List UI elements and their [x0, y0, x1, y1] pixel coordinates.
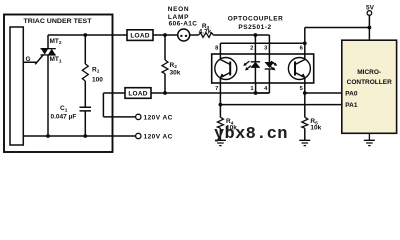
svg-text:100: 100	[92, 76, 103, 83]
svg-text:10k: 10k	[310, 125, 321, 132]
svg-text:4.7k: 4.7k	[199, 29, 212, 36]
svg-text:7: 7	[215, 86, 218, 92]
svg-text:120V AC: 120V AC	[144, 115, 173, 122]
svg-text:606-A1C: 606-A1C	[169, 21, 198, 28]
svg-text:2: 2	[250, 45, 253, 51]
svg-text:5V: 5V	[366, 5, 375, 12]
svg-text:30k: 30k	[170, 69, 181, 76]
svg-text:NEON: NEON	[168, 6, 190, 13]
svg-text:CONTROLLER: CONTROLLER	[347, 79, 392, 86]
svg-text:LOAD: LOAD	[128, 91, 147, 98]
svg-text:OPTOCOUPLER: OPTOCOUPLER	[228, 16, 284, 23]
svg-text:PS2501-2: PS2501-2	[238, 24, 271, 31]
svg-text:MICRO-: MICRO-	[357, 69, 381, 76]
svg-text:120V AC: 120V AC	[144, 134, 173, 141]
svg-text:0.047 µF: 0.047 µF	[51, 113, 77, 120]
svg-text:TRIAC UNDER TEST: TRIAC UNDER TEST	[24, 18, 92, 25]
svg-text:G: G	[26, 56, 31, 63]
svg-text:PA1: PA1	[345, 102, 358, 109]
svg-text:PA0: PA0	[345, 90, 358, 97]
svg-text:LOAD: LOAD	[130, 33, 149, 40]
svg-text:ybx8.cn: ybx8.cn	[214, 125, 288, 144]
